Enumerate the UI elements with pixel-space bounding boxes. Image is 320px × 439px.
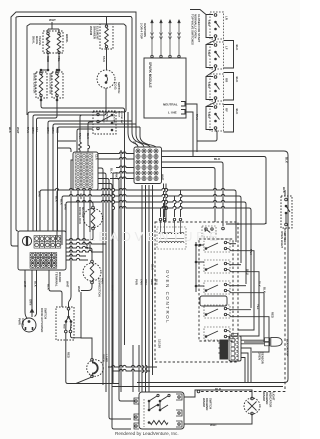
wire bottom collector 1 xyxy=(108,365,157,367)
wire control bottom 4 xyxy=(152,185,154,375)
svg-text:PUR: PUR xyxy=(135,279,139,285)
wire sensor return 3 xyxy=(241,358,245,383)
svg-text:ORN: ORN xyxy=(31,127,35,133)
svg-text:ORN: ORN xyxy=(46,127,50,133)
valve switch LR bracket xyxy=(206,15,213,38)
svg-text:WHT: WHT xyxy=(77,286,81,293)
burner valve 2 xyxy=(224,73,234,101)
wire relay drive 2 xyxy=(64,194,239,196)
svg-text:TAN: TAN xyxy=(207,82,211,88)
wire RED bus right xyxy=(58,127,157,231)
svg-text:BLK: BLK xyxy=(235,109,239,115)
svg-text:WHT: WHT xyxy=(66,281,70,288)
svg-text:RED: RED xyxy=(150,279,154,285)
spark electrode 2 xyxy=(160,55,162,57)
warm drawer right terminals xyxy=(176,394,182,400)
svg-text:PNK: PNK xyxy=(115,172,119,178)
spark module box xyxy=(144,58,186,118)
wire relay exit up 2 xyxy=(230,264,241,266)
wire relay exit down 4 xyxy=(230,317,269,352)
wire drop to warm drawer 2 xyxy=(138,345,140,392)
svg-text:BLK: BLK xyxy=(258,281,262,287)
lamp switch arm xyxy=(76,377,91,383)
svg-text:OVEN DR: OVEN DR xyxy=(102,113,104,123)
warm drawer switch body xyxy=(139,392,184,429)
wire: chassis inner border xyxy=(16,17,144,232)
wire broil ignitor to YEL bus xyxy=(37,100,58,231)
svg-text:FAN: FAN xyxy=(101,278,105,284)
wire P1 entries xyxy=(116,166,134,168)
wire cavity right side to TAN bus xyxy=(28,24,126,231)
svg-text:ORG: ORG xyxy=(144,279,148,285)
wire bottom collector 2 xyxy=(112,369,150,371)
node bake junction xyxy=(47,69,50,72)
spark electrode 4 xyxy=(178,55,180,57)
svg-text:TAN: TAN xyxy=(195,114,199,120)
wire from TOD down xyxy=(105,88,107,113)
wire mid drop 1 xyxy=(120,150,122,392)
wire C1R exits right xyxy=(98,168,103,385)
svg-text:MOTOR: MOTOR xyxy=(81,207,85,217)
thermostat TOD switch xyxy=(97,70,115,88)
wire relay exit up 3 xyxy=(230,285,246,287)
wire relay drive 3 xyxy=(68,200,244,202)
wire feed C1R left xyxy=(58,148,72,152)
svg-text:NEUTRAL: NEUTRAL xyxy=(163,103,178,107)
svg-text:UNLOCK: UNLOCK xyxy=(106,113,108,123)
wire valve switch link xyxy=(206,37,216,44)
wire door lock bottom xyxy=(91,230,93,240)
wire door switch to lamp top xyxy=(71,333,82,338)
wire ORN bus right xyxy=(48,121,132,231)
wire sensor return 2 xyxy=(241,353,248,383)
burner valve 1 xyxy=(224,41,234,69)
resistor bake ignitor xyxy=(40,72,42,74)
node broil junction xyxy=(58,69,61,72)
valve switch LF box xyxy=(210,42,224,69)
spark electrode 3 xyxy=(169,55,171,57)
transformer terminals xyxy=(159,218,161,220)
broil ignitor box xyxy=(52,72,63,98)
wire WHT supply to elements xyxy=(51,22,53,29)
wire to first valve switch xyxy=(190,10,206,15)
wire run to DLB xyxy=(162,162,224,226)
wire fan bottom xyxy=(81,284,92,291)
wire line out xyxy=(185,112,193,157)
wire board exit 4 xyxy=(66,250,103,252)
svg-text:WHT: WHT xyxy=(16,127,20,134)
wire to broil ignitor xyxy=(57,69,59,71)
svg-text:L I NE: L I NE xyxy=(168,111,177,115)
wire board exit 1 xyxy=(66,238,91,240)
svg-text:RED: RED xyxy=(271,312,275,318)
svg-text:BLK: BLK xyxy=(110,168,114,174)
connector black shell xyxy=(220,340,228,359)
wire door lock top xyxy=(68,202,93,206)
terminal board body xyxy=(18,231,66,270)
valve switch RF contacts xyxy=(214,106,217,109)
valve switch RR box xyxy=(210,74,224,101)
wire long drop 5 xyxy=(110,178,113,180)
wire oven light switch to lamp xyxy=(200,228,285,392)
warm drawer element box xyxy=(100,24,113,49)
svg-text:BROIL: BROIL xyxy=(65,34,69,43)
svg-text:BLK: BLK xyxy=(86,133,90,139)
svg-text:BLK: BLK xyxy=(55,196,59,202)
wire relay exit down 3 xyxy=(230,293,264,342)
connector C1R body xyxy=(73,152,98,190)
svg-text:TAN: TAN xyxy=(207,20,211,26)
svg-text:ELEMENT: ELEMENT xyxy=(96,26,100,40)
wire relay drive 4 xyxy=(119,206,249,208)
wire relay bank left bus xyxy=(195,242,197,292)
bake and broil element box xyxy=(43,31,63,53)
transformer box xyxy=(157,227,186,249)
svg-text:BLK: BLK xyxy=(235,77,239,83)
svg-text:LOCK SW: LOCK SW xyxy=(113,113,115,124)
svg-text:GRN: GRN xyxy=(51,127,55,133)
wire valve switch link xyxy=(206,67,216,76)
svg-text:VALVE: VALVE xyxy=(38,36,42,45)
terminal board grid A xyxy=(34,236,39,242)
wire P1 bottom verticals xyxy=(166,184,168,223)
oven cavity box xyxy=(27,24,124,115)
convection fan motor xyxy=(83,263,101,281)
svg-text:RED: RED xyxy=(63,324,65,329)
svg-text:TAN: TAN xyxy=(26,127,30,133)
wire relay drive 1 xyxy=(40,190,42,231)
wire L1 run to right frame xyxy=(137,151,288,383)
svg-text:TAN: TAN xyxy=(207,50,211,56)
wire relay exit down 1 xyxy=(230,251,254,330)
warm drawer indicator light xyxy=(244,398,260,414)
terminal board grid B xyxy=(30,253,35,258)
warm drawer switch contacts xyxy=(143,399,145,427)
valve switch LF contacts xyxy=(214,44,217,47)
bake ignitor box xyxy=(36,72,47,98)
relay contact 4 xyxy=(204,305,230,318)
svg-text:C1R: C1R xyxy=(95,154,99,160)
svg-text:BLK: BLK xyxy=(47,284,51,290)
wire valve return to spark module xyxy=(197,130,217,142)
door lock motor xyxy=(84,209,103,228)
wire drop to warm drawer 1 xyxy=(132,345,134,392)
wire mid drop 2 xyxy=(124,112,126,345)
connector C1R pins xyxy=(75,153,81,160)
wire long drop 3 xyxy=(113,173,115,384)
wire run left of P1 a xyxy=(98,152,134,154)
svg-text:CLOSED FOR START: CLOSED FOR START xyxy=(197,14,201,43)
svg-text:BLK OR PNP: BLK OR PNP xyxy=(286,339,290,356)
svg-text:BLK: BLK xyxy=(285,157,289,164)
squiggle lead 1 xyxy=(79,142,82,150)
svg-text:BLK: BLK xyxy=(263,287,267,293)
svg-text:IGNITORS: IGNITORS xyxy=(143,23,147,37)
svg-text:SWITCH: SWITCH xyxy=(208,398,212,409)
door activated switch contacts xyxy=(67,308,70,311)
warm drawer left terminals xyxy=(134,398,139,404)
node broil ignitor bottom xyxy=(56,97,58,100)
warm drawer coil xyxy=(150,421,168,425)
valve switch RR contacts xyxy=(214,76,217,79)
oven lamp xyxy=(87,360,104,377)
svg-text:LAMP: LAMP xyxy=(105,354,109,362)
wire board exit 2 xyxy=(66,242,106,244)
wire door switch RED to lamp xyxy=(66,333,119,384)
wire neutral run xyxy=(162,157,267,225)
svg-text:P1: P1 xyxy=(133,141,137,145)
door activated switch box xyxy=(56,307,74,340)
relay contact 3 xyxy=(204,281,230,294)
svg-text:BAKE IGNITOR: BAKE IGNITOR xyxy=(33,73,37,93)
relay contact 1 xyxy=(204,239,230,252)
wire oven lamp feed xyxy=(81,292,92,359)
svg-text:RED: RED xyxy=(56,127,60,133)
wire relay exit up 1 xyxy=(230,243,236,245)
wire C1R left drop xyxy=(69,160,74,307)
wire right bus long xyxy=(226,190,266,224)
wire sensor return 1 xyxy=(241,348,251,383)
wire board exit 6 xyxy=(66,258,88,260)
oven control enclosure xyxy=(155,222,238,362)
wire valve switch link xyxy=(206,99,216,106)
svg-text:BAKE: BAKE xyxy=(46,37,50,45)
ground lug xyxy=(22,236,31,245)
svg-text:SWITCH: SWITCH xyxy=(117,82,121,93)
wire GRN bus right xyxy=(53,124,136,231)
wire door lock switch lead 3 xyxy=(88,124,90,152)
wire curve into P1 pin 1 xyxy=(128,112,138,147)
resistor bake element xyxy=(47,32,49,34)
node bake ignitor bottom xyxy=(40,97,42,100)
svg-text:BLK: BLK xyxy=(8,127,12,134)
valve switch RF bracket xyxy=(206,107,213,130)
connector P1 body xyxy=(134,147,162,184)
svg-text:LOCK: LOCK xyxy=(118,111,120,118)
resistor broil ignitor xyxy=(56,72,58,74)
svg-text:BLU: BLU xyxy=(110,285,114,291)
wire neutral out xyxy=(185,104,197,152)
connector sensor header xyxy=(229,336,241,361)
relay DLB box xyxy=(202,226,216,237)
wire relay exit down 2 xyxy=(230,272,259,336)
svg-text:WHT: WHT xyxy=(160,174,164,181)
wire board exit 5 xyxy=(66,254,86,256)
spark electrode 1 xyxy=(151,55,153,57)
wire door lock switch lead 2 xyxy=(77,129,93,152)
transformer primary coil xyxy=(159,232,184,234)
svg-text:BLU: BLU xyxy=(155,279,159,285)
svg-text:BROIL IGNITOR: BROIL IGNITOR xyxy=(49,73,53,94)
valve switch LR box xyxy=(210,12,224,39)
svg-text:MOTOR SW: MOTOR SW xyxy=(120,111,122,124)
burner valve 3 xyxy=(224,105,234,133)
wire relay exit up 4 xyxy=(230,309,251,311)
valve switch RF box xyxy=(210,104,224,131)
svg-text:L E A D V E N T U R E: L E A D V E N T U R E xyxy=(88,229,218,244)
oven sensor plug xyxy=(265,338,270,342)
svg-text:SWITCH: SWITCH xyxy=(43,308,47,319)
svg-text:TAN: TAN xyxy=(78,133,82,139)
svg-text:SENSOR: SENSOR xyxy=(261,352,265,364)
svg-text:SPARK MODULE: SPARK MODULE xyxy=(148,62,152,88)
wire C1R bottom drops xyxy=(77,190,79,240)
svg-text:TAN: TAN xyxy=(102,56,106,62)
svg-text:OVEN CONTROL: OVEN CONTROL xyxy=(165,270,170,324)
resistor broil element xyxy=(58,32,60,34)
transformer secondary coil xyxy=(159,241,184,243)
svg-text:LF: LF xyxy=(225,46,229,50)
wire board exit 3 xyxy=(66,246,90,248)
wire to bake ignitor xyxy=(41,69,48,71)
svg-text:Rendered by LeadVenture, Inc.: Rendered by LeadVenture, Inc. xyxy=(115,431,179,436)
svg-text:TAN: TAN xyxy=(140,279,144,285)
node DLB terminal xyxy=(222,227,225,230)
door lock switch box xyxy=(93,111,116,134)
connector P1 pins xyxy=(136,149,140,153)
wire run 4 xyxy=(162,168,216,223)
valve switch RR bracket xyxy=(206,77,213,100)
svg-text:WHT: WHT xyxy=(49,18,56,22)
svg-text:BLK: BLK xyxy=(214,157,221,161)
oven light switch xyxy=(284,190,286,196)
wire run left of P1 b xyxy=(98,157,134,159)
resistor warm drawer element xyxy=(106,17,108,25)
svg-text:BLK: BLK xyxy=(60,199,64,205)
relay contact 5 xyxy=(204,327,230,340)
wire control bottom 2 xyxy=(146,185,148,392)
svg-text:YEL: YEL xyxy=(256,304,260,310)
svg-text:BOARD: BOARD xyxy=(58,272,62,282)
svg-text:WHT: WHT xyxy=(64,204,68,211)
wire warm drawer to lamp bottom xyxy=(184,414,252,424)
svg-text:CORD: CORD xyxy=(21,318,25,327)
wire bake ignitor return xyxy=(41,100,125,118)
wire bottom chassis line 2 xyxy=(112,386,283,388)
valve switch LR contacts xyxy=(214,14,217,17)
svg-text:WHT: WHT xyxy=(38,191,42,198)
svg-text:SWITCH: SWITCH xyxy=(283,231,287,242)
wire warm drawer to lamp top xyxy=(184,390,252,398)
power cord plug xyxy=(22,318,36,332)
wire sensor leads xyxy=(241,339,265,341)
wire transformer feeds xyxy=(181,190,183,217)
wire: chassis outer border xyxy=(11,12,150,246)
door lock switch contacts xyxy=(97,113,99,115)
svg-text:RED: RED xyxy=(67,352,71,358)
relay contact 2 xyxy=(204,260,230,273)
svg-text:LIGHT: LIGHT xyxy=(272,392,276,401)
svg-text:RF: RF xyxy=(225,108,229,112)
svg-text:BLK: BLK xyxy=(235,45,239,51)
wire control bottom 3 xyxy=(148,185,150,392)
wire TOD to ORN bus xyxy=(33,113,106,231)
wire door lock switch lead 1 xyxy=(80,115,93,142)
wire long drop 4 xyxy=(117,179,134,402)
relay bank enclosure xyxy=(199,239,233,341)
wire control bottom 1 xyxy=(142,185,144,392)
valve switch LF bracket xyxy=(206,45,213,68)
svg-text:TAN: TAN xyxy=(249,249,253,255)
relay bank lower connector xyxy=(200,296,227,306)
svg-text:11/126: 11/126 xyxy=(158,339,162,348)
svg-text:TAN: TAN xyxy=(207,112,211,118)
svg-text:YEL: YEL xyxy=(35,127,39,133)
svg-text:DOOR ACTUATED: DOOR ACTUATED xyxy=(40,308,44,332)
wire fan top xyxy=(90,248,92,260)
wire feed C1R from RED bus xyxy=(58,140,77,142)
